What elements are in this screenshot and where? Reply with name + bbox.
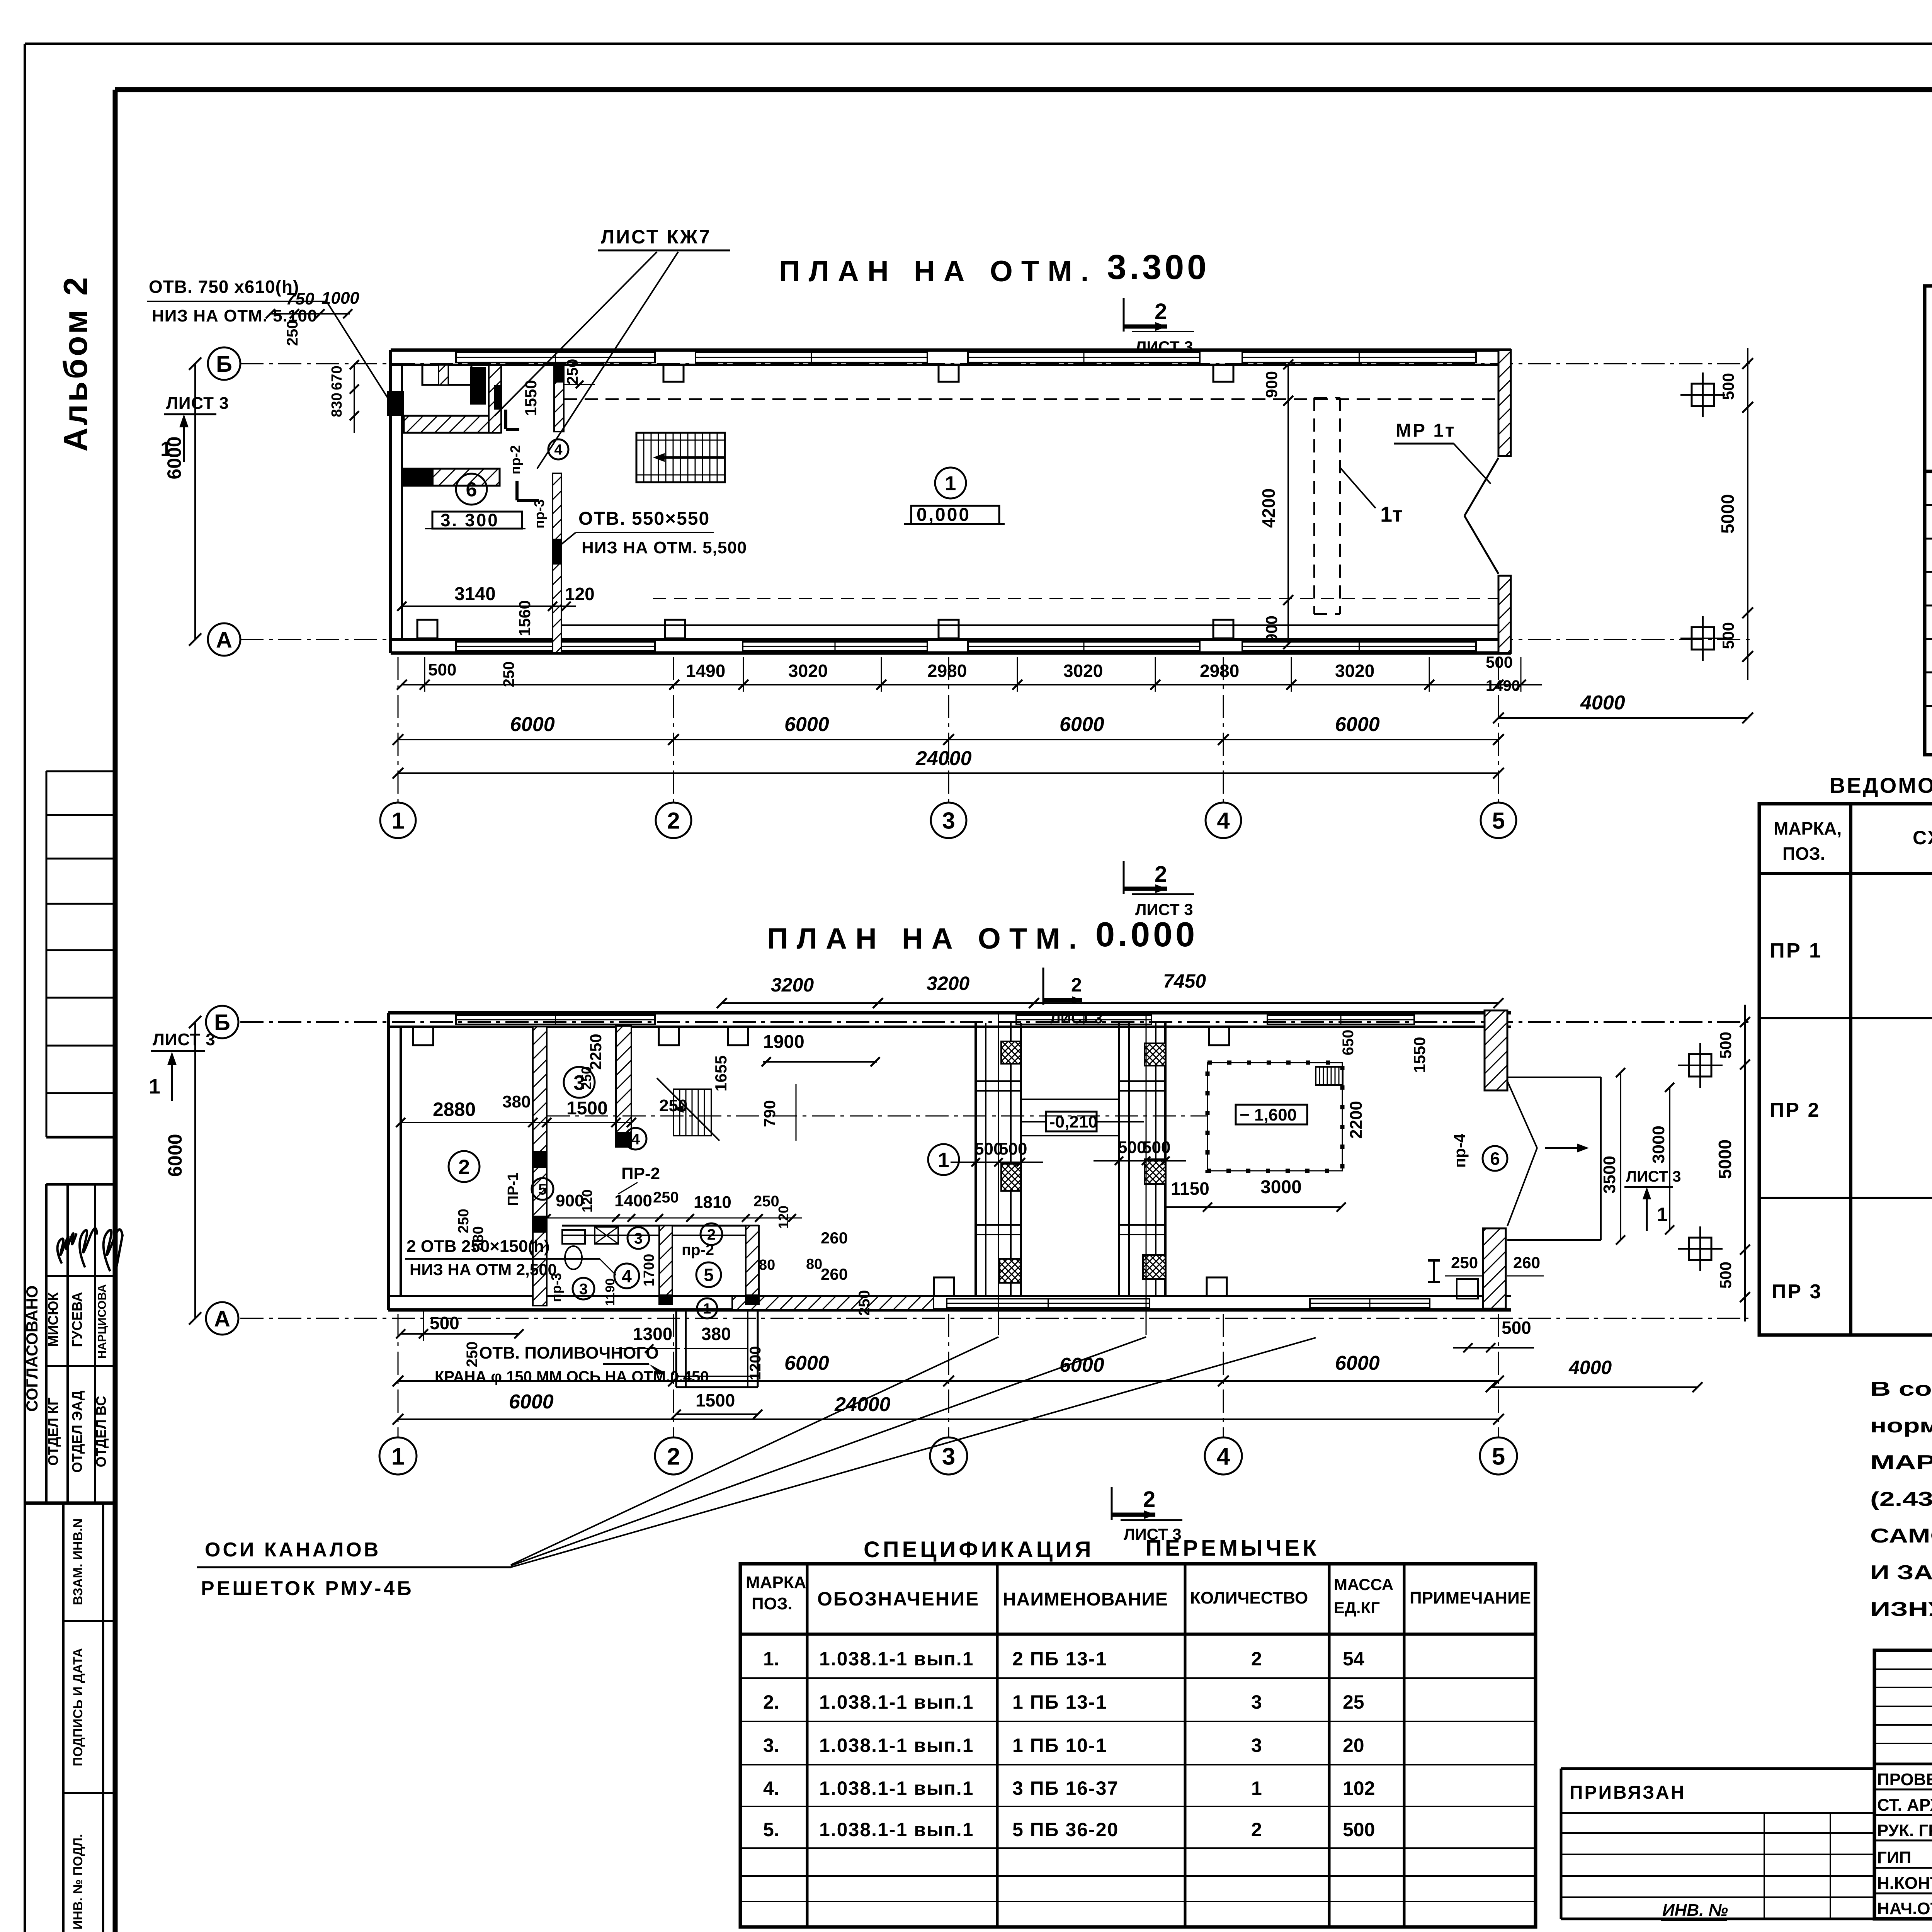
svg-text:ПРИВЯЗАН: ПРИВЯЗАН [1570,1782,1685,1803]
svg-text:3020: 3020 [1335,661,1374,681]
svg-text:2 ПБ 13-1: 2 ПБ 13-1 [1012,1648,1107,1670]
room circle 1 main hall [928,1144,959,1175]
bottom wall window band 3 [968,642,1200,651]
bottom wall window band 1 [456,642,655,651]
svg-text:3020: 3020 [788,661,828,681]
svg-text:3: 3 [579,1281,588,1298]
svg-text:5000: 5000 [1715,1139,1735,1179]
svg-text:1 ПБ 13-1: 1 ПБ 13-1 [1012,1691,1107,1713]
ventkamera black piece on strip [494,385,501,410]
top plan top wall [391,349,1511,352]
svg-text:НАЧ.ОТД: НАЧ.ОТД [1877,1899,1932,1918]
svg-text:ОТВ. ПОЛИВОЧНОГО: ОТВ. ПОЛИВОЧНОГО [479,1344,659,1362]
dim 900 4200 900 column line [1287,364,1289,644]
svg-text:1: 1 [160,437,172,461]
bp top window band 3 [1267,1015,1414,1024]
svg-text:МР 1т: МР 1т [1396,420,1456,441]
top wall pilaster axis 2 [663,365,684,382]
svg-text:ВЗАМ. ИНВ.N: ВЗАМ. ИНВ.N [71,1519,85,1605]
bottom plan top dim row 3200 3200 7450 [722,1002,1498,1004]
toilet [562,1230,585,1244]
ventkamera black wall piece left [387,391,404,416]
svg-text:250: 250 [284,320,301,346]
svg-text:1т: 1т [1380,502,1403,526]
svg-text:2: 2 [1155,299,1167,324]
svg-text:ПР 2: ПР 2 [1770,1099,1820,1121]
dashed duct 1т [1313,398,1315,614]
svg-text:пр-2: пр-2 [507,445,523,474]
top wall window band 3 [968,352,1200,362]
svg-text:260: 260 [821,1229,848,1247]
svg-text:1655: 1655 [712,1055,730,1091]
svg-text:1500: 1500 [566,1098,608,1119]
svg-text:ЛИСТ 3: ЛИСТ 3 [153,1030,216,1049]
svg-text:2: 2 [707,1226,716,1243]
svg-text:5: 5 [538,1181,547,1198]
svg-text:500: 500 [1719,622,1737,649]
svg-text:ГУСЕВА: ГУСЕВА [69,1292,85,1347]
svg-text:3: 3 [634,1230,643,1247]
svg-text:1150: 1150 [1171,1179,1209,1199]
svg-text:2980: 2980 [1200,661,1239,681]
privyazan block [1561,1767,1874,1770]
sheet inner thick frame [115,87,1932,92]
svg-text:250: 250 [653,1189,679,1206]
bottom plan axis circle А [206,1302,238,1335]
wall ПР-2 black top [554,365,564,383]
svg-text:5000: 5000 [1718,494,1738,534]
svg-text:В соответствии со СНиП2.01.02: В соответствии со СНиП2.01.02-85 "Против… [1870,1378,1932,1400]
svg-text:24000: 24000 [915,747,972,770]
bottom plan axis stems and circles [398,1314,399,1437]
black segs strip1 [533,1151,547,1168]
top plan axis line А [240,639,1754,640]
svg-text:3000: 3000 [1649,1126,1668,1163]
section marker 2-2 below bottom plan [1111,1487,1113,1520]
top plan axis circle Б [208,347,240,380]
ventkamera hatched band lower [404,469,500,486]
top plan dim 4000 right [1498,717,1748,719]
svg-text:3 ПБ 16-37: 3 ПБ 16-37 [1012,1777,1119,1799]
wall ПР-3 hatched strip [553,473,561,653]
svg-text:4: 4 [622,1266,632,1286]
interior wall hatched strip 1 [533,1027,547,1306]
svg-text:670: 670 [329,366,345,390]
svg-text:ПОДПИСЬ И ДАТА: ПОДПИСЬ И ДАТА [71,1648,85,1766]
svg-text:250: 250 [578,1066,594,1090]
room circle 3 small a [628,1227,649,1249]
svg-text:2: 2 [1155,862,1167,887]
top plan door МР1т leaves [1464,458,1498,516]
svg-text:260: 260 [821,1265,848,1283]
channel dashed line upper [564,398,1498,400]
room circle 5 [696,1262,721,1287]
svg-text:1550: 1550 [1410,1037,1429,1073]
svg-text:500: 500 [1716,1032,1735,1059]
svg-text:пр-2: пр-2 [682,1242,714,1259]
svg-text:1300: 1300 [633,1324,672,1344]
sanitary pier 2 [746,1226,759,1304]
svg-text:ЛИСТ 3: ЛИСТ 3 [1135,338,1193,356]
svg-text:1: 1 [1657,1204,1668,1225]
svg-text:МАССА: МАССА [1334,1575,1393,1594]
svg-text:2: 2 [1143,1487,1155,1512]
svg-text:25: 25 [1343,1691,1364,1713]
svg-text:НАИМЕНОВАНИЕ: НАИМЕНОВАНИЕ [1003,1589,1168,1610]
svg-text:80: 80 [759,1257,775,1273]
svg-text:250: 250 [464,1342,481,1367]
svg-text:5: 5 [704,1265,714,1285]
svg-text:6000: 6000 [1060,713,1104,736]
bp bottom window band 2 [1310,1299,1430,1308]
grating channel B walls [1118,1023,1120,1296]
svg-text:− 1,600: − 1,600 [1240,1105,1297,1124]
svg-text:500: 500 [999,1139,1027,1158]
svg-text:250: 250 [659,1096,687,1115]
room circle 2 [449,1151,480,1182]
pos circle 1 small [697,1298,717,1318]
svg-text:1.038.1-1 вып.1: 1.038.1-1 вып.1 [819,1735,974,1756]
section marker 2-2 below top plan [1123,861,1125,894]
axis square marker right top [1692,384,1714,406]
svg-text:500: 500 [1343,1819,1375,1840]
bp bottom window band 1 [947,1299,1150,1308]
svg-text:2: 2 [1251,1819,1262,1840]
svg-text:ОТВ. 750 х610(h): ОТВ. 750 х610(h) [149,277,299,297]
approval block grid [46,1183,115,1186]
svg-text:6000: 6000 [164,1134,186,1177]
bp bottom wall hatched segment [732,1296,934,1310]
top wall window band 2 [696,352,927,362]
room circle 6 right [1483,1146,1507,1171]
svg-text:250: 250 [500,662,517,687]
svg-text:СОГЛАСОВАНО: СОГЛАСОВАНО [23,1286,41,1412]
dim 3000 rotated [1669,1087,1670,1230]
svg-text:790: 790 [760,1100,779,1127]
svg-text:ПЛАН НА ОТМ.: ПЛАН НА ОТМ. [767,922,1085,955]
svg-text:4000: 4000 [1568,1357,1612,1378]
leader to 1т [1340,468,1376,508]
svg-text:пр-4: пр-4 [1451,1133,1469,1168]
svg-text:500: 500 [1486,653,1513,671]
wall ПР-2 hatched strip [554,365,564,432]
svg-text:6000: 6000 [784,1352,829,1374]
dim 3500 rotated [1620,1073,1621,1240]
sheet outer thin border [25,43,1932,45]
lintel list 1 frame [1759,804,1932,1335]
svg-text:ВЕДОМОСТЬ ПЕРЕМЫЧЕК: ВЕДОМОСТЬ ПЕРЕМЫЧЕК [1830,773,1932,798]
svg-text:1.038.1-1 вып.1: 1.038.1-1 вып.1 [819,1691,974,1713]
svg-text:6000: 6000 [1335,713,1380,736]
svg-text:1700: 1700 [641,1254,657,1287]
svg-text:1490: 1490 [686,661,725,681]
svg-text:2: 2 [667,808,680,834]
svg-text:260: 260 [1513,1253,1540,1272]
bottom plan left wall [387,1013,390,1310]
bp top pilasters [413,1027,433,1045]
svg-text:4: 4 [1217,1443,1230,1470]
specification columns [806,1564,809,1927]
svg-text:3200: 3200 [927,973,969,994]
svg-text:5: 5 [1492,808,1505,834]
svg-text:-0,210: -0,210 [1049,1112,1098,1131]
svg-text:МАРКА,: МАРКА, [1774,818,1842,838]
svg-text:1900: 1900 [763,1032,804,1052]
svg-text:500: 500 [428,660,456,679]
top plan right vertical dim [1747,348,1748,680]
channel cross bands [976,1080,1021,1082]
room circle 3 small b [573,1278,594,1299]
svg-text:нормы"п.4.15 ДВЕРИ МАРКИ ДНГ: нормы"п.4.15 ДВЕРИ МАРКИ ДНГ24-10 (ГОСТ … [1870,1415,1932,1437]
explication row lines [1925,504,1932,506]
svg-text:500: 500 [1502,1318,1531,1338]
room circle 3 heat [564,1067,595,1098]
svg-text:1: 1 [391,1443,405,1470]
leader lines from лист КЖ7 [495,252,657,416]
bottom plan axis circle Б [206,1006,238,1038]
explication header line [1925,470,1932,473]
svg-text:ПРИМЕЧАНИЕ: ПРИМЕЧАНИЕ [1410,1588,1531,1607]
leader Отв550 [558,532,576,547]
svg-text:900: 900 [1262,371,1281,398]
vertical dim 830 670 [354,365,355,433]
entrance arrow [1545,1147,1583,1149]
top plan vertical dim 6000 between Б and А [194,364,196,639]
svg-text:1190: 1190 [603,1278,617,1306]
svg-text:1.038.1-1 вып.1: 1.038.1-1 вып.1 [819,1819,974,1840]
level mark 0.000 room 1 [935,468,966,498]
svg-text:МАРКА: МАРКА [746,1573,806,1592]
top plan right wall hatched [1498,350,1511,456]
svg-text:РУК. ГР.: РУК. ГР. [1877,1821,1932,1840]
bottom wall column axis 2 [665,620,685,638]
svg-text:500: 500 [1716,1262,1735,1289]
bottom wall column axis 3 [939,620,959,638]
ventkamera black piece lower band [404,469,434,486]
pit grate [1315,1067,1316,1085]
svg-text:2.: 2. [763,1691,779,1713]
svg-text:5: 5 [1492,1443,1505,1470]
svg-text:6000: 6000 [1335,1352,1380,1374]
svg-text:3: 3 [942,1443,955,1470]
bottom plan right vertical dim [1744,1005,1746,1321]
bottom wall column axis 4 [1213,620,1233,638]
svg-text:4: 4 [1217,808,1230,834]
top wall window band 1 [456,352,655,362]
svg-text:250: 250 [1451,1253,1478,1272]
ventkamera vertical black piece [470,367,486,405]
svg-text:6000: 6000 [509,1391,554,1413]
svg-text:1810: 1810 [694,1193,731,1212]
bottom plan vertical dim 6000 [194,1022,196,1318]
svg-text:3020: 3020 [1063,661,1103,681]
top plan left wall [389,350,392,653]
pos circle 2 small [701,1223,722,1245]
wall ПР-3 black piece [553,539,561,565]
svg-text:650: 650 [1340,1030,1357,1056]
sanitary walls horizontal [562,1225,759,1227]
pos circle 5 at ПР-1 [532,1178,553,1200]
top wall window band 4 [1242,352,1476,362]
svg-text:24000: 24000 [834,1393,891,1416]
interior dim 3140 120 [402,605,576,607]
svg-text:1.038.1-1 вып.1: 1.038.1-1 вып.1 [819,1648,974,1670]
svg-text:ПОЗ.: ПОЗ. [1782,844,1825,864]
svg-text:ПР-2: ПР-2 [621,1164,660,1183]
channel dashed line lower [653,598,1498,599]
svg-text:20: 20 [1343,1735,1364,1756]
svg-text:1200: 1200 [747,1346,764,1381]
svg-text:МИСЮК: МИСЮК [45,1292,61,1347]
svg-text:ПР 3: ПР 3 [1772,1281,1822,1303]
svg-text:ГИП: ГИП [1877,1848,1911,1867]
section marker 2-2 top [1123,298,1125,332]
svg-text:120: 120 [579,1189,595,1213]
svg-text:3. 300: 3. 300 [440,510,499,530]
interior horizontal lines between channels [1021,1099,1119,1100]
top plan axis line Б [240,363,1754,364]
corner bracket 1 [504,410,507,429]
svg-text:3: 3 [942,808,955,834]
signature squiggle 3 [104,1230,122,1271]
leader diagonals to channel axes [511,1337,998,1565]
svg-text:500: 500 [430,1313,459,1333]
ventkamera window rects [422,365,471,385]
svg-text:2250: 2250 [587,1034,605,1070]
bottom wall window band 4 [1242,642,1476,651]
svg-text:ОТВ. 550×550: ОТВ. 550×550 [578,509,710,529]
top plan dim row 1 [402,684,1542,685]
svg-text:1: 1 [938,1148,949,1172]
svg-text:102: 102 [1343,1777,1375,1799]
svg-text:3000: 3000 [1260,1177,1302,1197]
svg-text:ПРОВЕР.: ПРОВЕР. [1877,1770,1932,1789]
svg-text:СХЕМА СЕЧЕНИЯ: СХЕМА СЕЧЕНИЯ [1913,827,1932,849]
svg-text:3: 3 [1251,1691,1262,1713]
svg-text:ОТДЕЛ ЭАД: ОТДЕЛ ЭАД [69,1391,85,1473]
svg-text:900: 900 [1262,616,1281,643]
svg-text:4: 4 [631,1131,640,1148]
bp bottom columns [934,1277,954,1296]
level box -0,210 [1046,1112,1097,1131]
specification header line [740,1633,1536,1636]
svg-text:0,000: 0,000 [917,505,971,525]
room circle 4 top [625,1128,646,1150]
svg-text:КОЛИЧЕСТВО: КОЛИЧЕСТВО [1190,1588,1308,1607]
svg-text:250: 250 [456,1209,472,1233]
svg-text:пр-3: пр-3 [531,499,547,529]
titleblock thin upper rows [1874,1668,1932,1670]
svg-text:380: 380 [470,1226,486,1250]
svg-text:Б: Б [216,352,232,377]
svg-text:1.038.1-1 вып.1: 1.038.1-1 вып.1 [819,1777,974,1799]
svg-text:2980: 2980 [927,661,967,681]
top plan axis circle А [208,623,240,656]
svg-text:2880: 2880 [433,1099,476,1120]
svg-text:ЛИСТ КЖ7: ЛИСТ КЖ7 [601,226,711,248]
top plan axis stems and circles [398,657,399,802]
sanitary pier 1 [659,1226,672,1304]
svg-text:ПЛАН НА ОТМ.: ПЛАН НА ОТМ. [779,255,1097,288]
svg-text:ЛИСТ 3: ЛИСТ 3 [1626,1168,1681,1185]
bottom plan dim row 24000 [398,1418,1498,1420]
svg-text:2: 2 [1251,1648,1262,1670]
top plan dim row 24000 [398,772,1498,774]
svg-text:1550: 1550 [522,380,540,416]
channel axes vertical [998,1013,999,1335]
svg-text:РЕШЕТОК РМУ-4Б: РЕШЕТОК РМУ-4Б [201,1577,414,1600]
svg-text:1560: 1560 [515,600,534,636]
svg-text:НИЗ НА ОТМ 2,500: НИЗ НА ОТМ 2,500 [410,1260,557,1279]
channel crosshatch blocks [1001,1041,1021,1064]
svg-text:ПР-1: ПР-1 [505,1173,521,1206]
svg-text:250: 250 [564,359,581,385]
svg-text:МАРКИ ДО 24-10 (ГОСТ14624-84): МАРКИ ДО 24-10 (ГОСТ14624-84) - 1шт.; МА… [1870,1451,1932,1474]
svg-text:6000: 6000 [510,713,555,736]
bottom plan dim row 6000 [398,1380,1498,1382]
svg-text:ОБОЗНАЧЕНИЕ: ОБОЗНАЧЕНИЕ [817,1588,980,1610]
extension lines row1 [424,657,425,692]
top plan bottom wall [391,638,1511,641]
svg-text:1: 1 [149,1075,160,1098]
svg-text:1: 1 [391,808,404,834]
svg-text:4200: 4200 [1259,488,1279,528]
small window right [1457,1279,1478,1299]
svg-text:6: 6 [466,479,477,501]
svg-text:СТ. АРХ.: СТ. АРХ. [1877,1796,1932,1815]
svg-text:500: 500 [1142,1138,1170,1157]
svg-text:Б: Б [214,1010,230,1035]
specification frame [740,1564,1536,1927]
svg-text:830: 830 [329,393,345,417]
interior wall hatched strip 2 [616,1026,631,1147]
svg-text:Н.КОНТР.: Н.КОНТР. [1877,1874,1932,1893]
svg-text:7450: 7450 [1163,970,1206,992]
svg-text:1.: 1. [763,1648,779,1670]
svg-text:3.: 3. [763,1735,779,1756]
svg-text:4: 4 [554,442,562,458]
svg-text:ЛИСТ 3: ЛИСТ 3 [166,394,229,413]
titleblock named rows [1874,1789,1932,1791]
svg-text:750: 750 [286,289,315,308]
svg-text:1000: 1000 [321,289,359,308]
bottom wall column 1 [417,620,437,638]
svg-text:2: 2 [458,1155,470,1179]
svg-text:ЕД.КГ: ЕД.КГ [1334,1599,1380,1617]
left margin upper stamp rows [46,770,115,772]
svg-text:2200: 2200 [1347,1101,1366,1139]
leader from ОТВ 750х610 [327,301,390,402]
svg-text:3140: 3140 [454,584,496,604]
grating channel A walls [975,1023,977,1296]
small stairs [673,1089,711,1136]
svg-text:2: 2 [1071,974,1082,996]
bottom wall window band 2 [743,642,927,651]
svg-text:САМОЗАКРЫВАНИЯ ( ЗАКРЫВАТЕЛЕМ: САМОЗАКРЫВАНИЯ ( ЗАКРЫВАТЕЛЕМ 3Д-1 ГОСТ … [1870,1525,1932,1547]
svg-text:3: 3 [1251,1735,1262,1756]
svg-text:3200: 3200 [771,974,814,996]
svg-text:5.: 5. [763,1819,779,1840]
entrance right piers hatched [1485,1010,1507,1090]
svg-text:И ЗАМКОМ 3Н1Л ( ГОСТ 5089- 8: И ЗАМКОМ 3Н1Л ( ГОСТ 5089- 80), ОТКРЫВАЮ… [1870,1561,1932,1584]
svg-text:1: 1 [703,1301,711,1317]
level mark 3.300 room 6 [456,474,487,505]
top wall pilaster axis 4 [1213,365,1233,382]
svg-text:1 ПБ 10-1: 1 ПБ 10-1 [1012,1735,1107,1756]
tambour protrusion below [675,1310,677,1387]
bp top window band 2 [1016,1015,1151,1024]
svg-text:КРАНА φ 150 ММ ОСЬ НА ОТМ.0.45: КРАНА φ 150 ММ ОСЬ НА ОТМ.0.450 [435,1368,709,1385]
